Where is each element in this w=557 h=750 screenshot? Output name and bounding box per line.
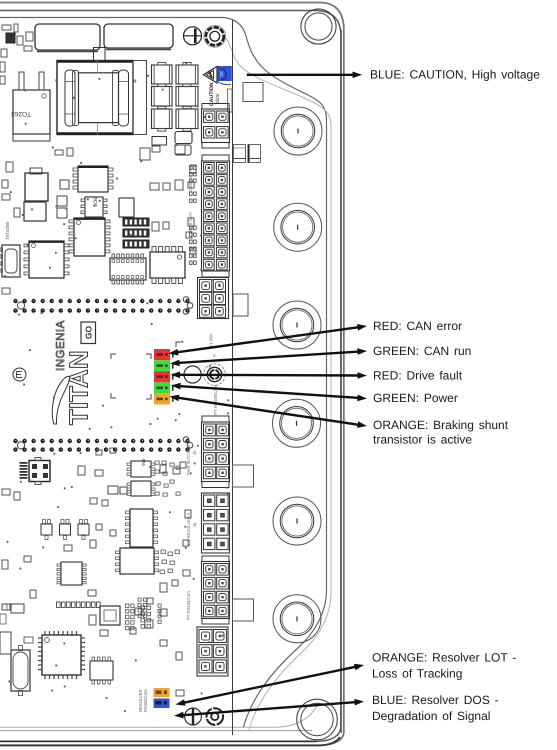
arrow CAN error <box>174 327 361 353</box>
small part bottom left <box>11 604 24 613</box>
boss bore 2 <box>274 203 322 251</box>
SSOP U10 <box>61 562 82 585</box>
washer bottom <box>207 708 224 725</box>
pin cluster bottom mid <box>138 598 141 601</box>
led drive fault (red) <box>154 371 170 382</box>
caps pair <box>57 196 67 206</box>
svg-text:ORANGE: Resolver LOT -: ORANGE: Resolver LOT - <box>372 651 516 665</box>
IC U3 <box>119 198 134 217</box>
top-left component cluster <box>2 25 11 30</box>
SOIC8 U13 <box>90 661 113 680</box>
capacitor bank <box>152 65 173 84</box>
arrow CAN run <box>176 351 362 363</box>
corner L marks <box>111 354 116 359</box>
led braking shunt (orange) <box>154 393 170 404</box>
svg-text:3X: 3X <box>219 71 224 77</box>
D-sub connector P1 <box>2 245 20 277</box>
led resolver DOS (blue) <box>154 699 170 709</box>
pcb right edge <box>232 20 234 735</box>
IC 508 <box>131 481 151 496</box>
led resolver LOT (orange) <box>154 688 170 697</box>
header pin row pair lower <box>13 439 17 443</box>
boss bottom corner <box>297 699 338 740</box>
svg-text:TITAN: TITAN <box>64 350 94 425</box>
arrow braking shunt <box>175 397 361 425</box>
fiducial cluster right <box>183 297 189 303</box>
svg-text:ORANGE: Braking shunt: ORANGE: Braking shunt <box>373 418 509 432</box>
logo GO box <box>81 322 96 344</box>
transistor Q1 <box>60 180 69 189</box>
led CAN run (green) <box>154 360 170 371</box>
screw mid plain <box>184 366 201 383</box>
IC 506 <box>131 461 151 477</box>
svg-text:Loss of Tracking: Loss of Tracking <box>372 667 462 681</box>
svg-text:GO: GO <box>83 326 93 340</box>
svg-text:TO263: TO263 <box>11 110 31 117</box>
svg-text:RESOLVER: RESOLVER <box>138 690 143 713</box>
svg-text:RS485/CAN: RS485/CAN <box>143 689 148 712</box>
svg-text:506: 506 <box>141 458 146 466</box>
pocket cavity wall outer incl top third line <box>0 18 327 728</box>
TO263 power device <box>13 90 50 134</box>
svg-text:GREEN: CAN run: GREEN: CAN run <box>373 344 471 358</box>
svg-text:J5: J5 <box>192 450 197 455</box>
via speckle <box>147 75 149 77</box>
arrow blue caution <box>247 74 357 76</box>
svg-text:PT RS485/CAN: PT RS485/CAN <box>186 591 191 620</box>
svg-text:RED: Drive fault: RED: Drive fault <box>373 369 463 383</box>
left edge connector <box>0 632 11 654</box>
svg-text:F1 B50: F1 B50 <box>209 333 214 347</box>
boss bore 6 <box>273 595 321 643</box>
IC U1 <box>78 166 108 192</box>
relay module K1 <box>35 24 100 50</box>
connector J4 2x3 <box>198 278 229 319</box>
screw top crosshead <box>184 27 202 45</box>
svg-text:GREEN: Power: GREEN: Power <box>373 391 458 405</box>
resistor array RN1 <box>123 218 149 226</box>
crystal Y1 <box>11 650 30 691</box>
screw bottom crosshead <box>185 708 202 725</box>
connector J8 2x3 <box>197 627 228 676</box>
led power (green) <box>154 382 170 393</box>
fiducial upper <box>17 302 24 309</box>
connector J5 2x4 <box>202 416 229 422</box>
sot23 pair <box>108 486 118 494</box>
enclosure inner edge line <box>0 11 341 742</box>
svg-text:RED: CAN error: RED: CAN error <box>373 319 462 333</box>
bottom edge dark line 2 <box>0 737 340 745</box>
IC U2 SO6 <box>85 197 103 217</box>
IC U5 <box>29 241 64 278</box>
transformer T1 <box>57 61 133 135</box>
bottom edge dark line 1 <box>0 740 316 742</box>
QFP U12 <box>42 635 81 675</box>
boss bore 1 <box>274 107 322 155</box>
enclosure right wall dark line <box>340 30 342 733</box>
connector J9 <box>29 461 50 482</box>
fiducial lower left <box>17 442 24 449</box>
DIP IC U6 <box>110 258 146 280</box>
CE-like mark <box>13 368 26 381</box>
washer top <box>206 27 224 45</box>
connector J6 2x4 small <box>202 493 230 553</box>
IC U8 tall <box>130 509 153 547</box>
svg-text:X: X <box>213 353 216 358</box>
pad clusters lower right of QFN <box>126 604 129 607</box>
swoosh graphic <box>52 376 70 424</box>
resistor row <box>57 602 61 608</box>
flange pads near J2 <box>234 145 246 163</box>
fiducial lower right b <box>187 443 193 449</box>
inductor stack L1 <box>30 168 42 174</box>
flange tabs right of connectors <box>233 465 254 487</box>
svg-text:BLUE: Resolver DOS -: BLUE: Resolver DOS - <box>372 693 499 707</box>
connector J7 2x4 <box>202 556 229 562</box>
svg-text:transistor is active: transistor is active <box>373 433 472 447</box>
misc passives mid <box>55 150 63 155</box>
arrow resolver DOS <box>180 702 359 716</box>
arrow drive fault <box>176 374 361 377</box>
svg-text:Degradation of Signal: Degradation of Signal <box>372 709 490 723</box>
washer mid <box>204 364 226 386</box>
svg-text:X10: X10 <box>191 250 196 258</box>
relay module K2 <box>104 24 173 48</box>
fiducial lower right a <box>183 437 189 443</box>
misc passives lower <box>78 466 85 475</box>
svg-text:250V: 250V <box>215 92 220 104</box>
pad column strip left of J3 <box>190 166 193 169</box>
boss top corner <box>301 9 336 44</box>
arrow power <box>177 386 362 398</box>
svg-text:J6: J6 <box>192 522 197 527</box>
enclosure bottom third line <box>0 730 312 732</box>
DIP IC U7 <box>150 252 185 278</box>
boss bore 5 <box>273 497 321 545</box>
arrow resolver LOT <box>181 666 358 703</box>
led CAN error (red) <box>154 349 170 360</box>
svg-text:CMD RS: CMD RS <box>188 175 193 192</box>
big SOIC U4 <box>74 218 105 256</box>
boss bore 3 <box>273 301 321 349</box>
passive clusters right of 506 ICs <box>155 461 159 464</box>
boss bore 4 <box>273 399 321 447</box>
pocket floor bottom line <box>0 706 317 727</box>
blue caution LED D1 <box>217 66 232 81</box>
header pin row pair upper <box>13 299 17 303</box>
connector J2 2x2 <box>202 104 229 110</box>
svg-text:PWR MOTOR A: PWR MOTOR A <box>186 445 191 475</box>
svg-text:76T435B: 76T435B <box>5 222 10 240</box>
connector J3 long 2x9 <box>202 155 229 161</box>
svg-text:PWR MOT: PWR MOT <box>188 211 193 232</box>
QFN U11 <box>100 606 120 625</box>
transistor row <box>41 524 52 535</box>
IC U9 <box>120 548 154 574</box>
pocket cavity wall inner <box>226 38 331 731</box>
silkscreen text block left of J9 <box>20 462 28 464</box>
LED silkscreen labels <box>172 352 174 358</box>
enclosure outer edge <box>0 3 344 746</box>
svg-text:BLUE: CAUTION, High voltage: BLUE: CAUTION, High voltage <box>370 68 540 82</box>
